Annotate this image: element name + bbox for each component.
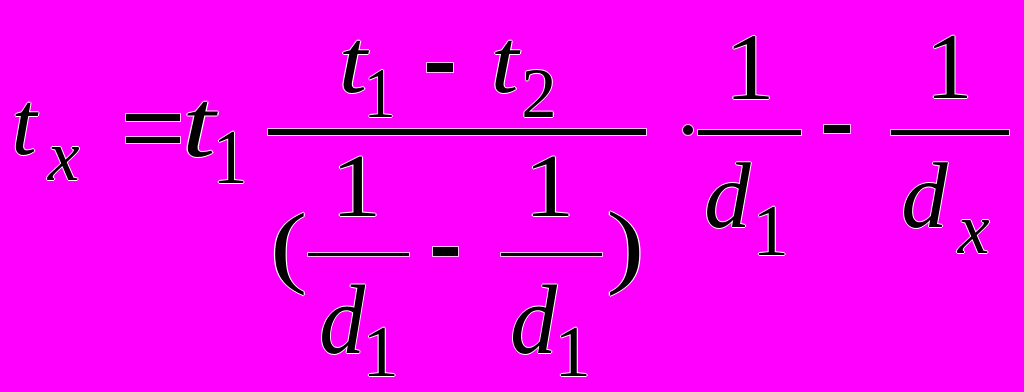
subscript 2 of t_2 (numerator): [521, 93, 556, 95]
subscript 1 of t_1 (numerator): [363, 93, 395, 95]
subscript 1 of d_1 (first inner fraction): [363, 351, 399, 353]
d of d_x: [901, 196, 947, 198]
t of t_2 (numerator): [491, 61, 519, 63]
subscript 1 of t_1 (rhs): [213, 156, 248, 158]
minus sign (denominator): [433, 247, 458, 256]
main fraction bar: [268, 129, 646, 135]
numerator 1 of third fraction 1/d_1: [725, 66, 775, 68]
equals sign top bar: [126, 114, 180, 121]
minus sign (numerator): [427, 63, 453, 72]
multiplication dot: [683, 125, 693, 135]
subscript x of t_x: [48, 155, 80, 157]
subscript x of d_x: [958, 228, 990, 230]
numerator 1 of second inner fraction 1/d_1: [524, 185, 575, 187]
subscript 1 of d_1 (second inner fraction): [555, 351, 591, 353]
fraction bar of third 1/d_1: [698, 130, 801, 135]
fraction bar of 1/d_x: [891, 130, 1009, 135]
subscript 1 of d_1 (third fraction): [753, 230, 789, 232]
t of t_1 (numerator): [339, 61, 367, 63]
fraction bar of second inner 1/d_1: [501, 253, 602, 256]
d of d_1 (third fraction): [704, 196, 750, 198]
d of d_1 (second inner fraction): [510, 320, 557, 322]
t of t_1 (rhs): [182, 123, 216, 125]
fraction bar of first inner 1/d_1: [308, 253, 409, 256]
equals sign bottom bar: [126, 137, 180, 144]
left parenthesis: [271, 245, 308, 247]
numerator 1 of fraction 1/d_x: [926, 66, 973, 68]
t of t_x: [11, 123, 36, 125]
numerator 1 of first inner fraction 1/d_1: [331, 185, 382, 187]
right parenthesis: [607, 245, 645, 247]
d of d_1 (first inner fraction): [319, 320, 365, 322]
minus sign (rhs): [824, 125, 850, 133]
